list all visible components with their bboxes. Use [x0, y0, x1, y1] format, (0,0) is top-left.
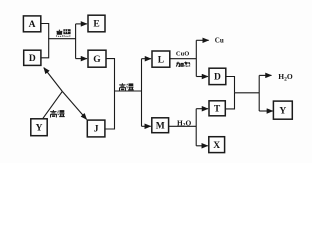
box Y (bottom-left) — [31, 119, 47, 136]
label 高温 (high temp, middle) — [119, 83, 134, 91]
arrow into G — [76, 58, 87, 60]
svg-text:J: J — [94, 125, 99, 135]
wire from D right to bracket — [226, 77, 235, 93]
box Y (right) — [273, 101, 292, 119]
svg-text:T: T — [214, 105, 221, 115]
arrow fork branch into J — [62, 91, 86, 119]
box X — [209, 137, 225, 153]
svg-text:X: X — [213, 141, 220, 151]
svg-text:G: G — [93, 55, 101, 65]
wire Y riser (decomposition fork) — [43, 91, 63, 118]
svg-text:Y: Y — [279, 106, 286, 116]
svg-text:Cu: Cu — [215, 37, 224, 45]
arrow fork branch into D — [44, 68, 63, 92]
arrow into D (right) — [196, 76, 208, 78]
box D (left) — [24, 50, 41, 65]
arrow into M — [142, 125, 151, 127]
wire from G to mid vertical — [105, 59, 115, 129]
svg-text:D: D — [29, 54, 36, 64]
box J — [87, 120, 105, 137]
wire dianran horizontal — [48, 38, 75, 40]
box A — [23, 16, 40, 32]
box G — [88, 50, 106, 67]
wire from D to junction — [41, 39, 49, 58]
label 加热 (heated) — [176, 62, 190, 67]
label 点燃 (ignite) — [56, 30, 63, 37]
svg-text:E: E — [93, 20, 99, 30]
box L — [152, 51, 170, 67]
wire right vertical split — [258, 75, 260, 111]
arrow into T — [196, 108, 208, 110]
wire from A to junction — [41, 24, 49, 39]
box M — [152, 118, 169, 133]
box E — [88, 15, 105, 32]
svg-text:D: D — [214, 73, 221, 83]
box D (right) — [209, 68, 226, 84]
arrow into X — [196, 145, 208, 147]
svg-text:Y: Y — [36, 123, 43, 133]
wire from L right with CuO label — [170, 58, 197, 60]
arrow to Cu — [196, 39, 208, 41]
arrow into L — [142, 58, 151, 60]
box T — [209, 101, 225, 116]
wire vertical split to T and X — [195, 109, 197, 146]
wire from T right to bracket — [225, 93, 234, 109]
arrow to H2O — [259, 74, 271, 76]
arrow into Y (right) — [259, 110, 273, 112]
svg-text:L: L — [158, 55, 164, 65]
wire vertical split to L and M — [141, 59, 143, 127]
svg-text:M: M — [156, 121, 165, 131]
wire vertical Cu/D split — [195, 40, 197, 76]
wire bracket middle horizontal — [235, 92, 260, 94]
wire vertical split to E and G — [75, 24, 77, 59]
svg-text:A: A — [29, 20, 36, 30]
label 高温 (high temp, left) — [50, 110, 65, 118]
svg-text:CuO: CuO — [176, 50, 189, 57]
arrow into E — [76, 23, 87, 25]
wire from M right with H2O label — [169, 125, 197, 127]
wire gaowen horizontal — [115, 90, 142, 92]
